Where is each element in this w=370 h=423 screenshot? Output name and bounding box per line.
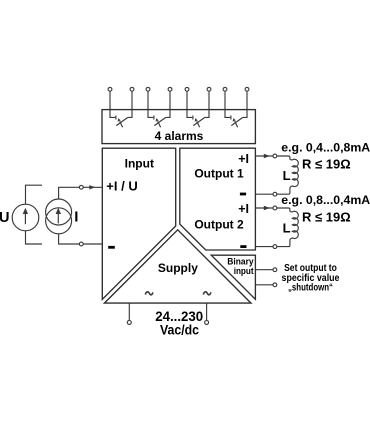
terminal 3 [146, 87, 150, 91]
output1 terminal + [273, 154, 277, 158]
terminal 6 [207, 87, 211, 91]
input terminal + [79, 185, 83, 189]
terminal 5 [185, 87, 189, 91]
wire U top stub [26, 185, 43, 204]
svg-text:+I: +I [238, 202, 249, 216]
terminal 7 [223, 87, 227, 91]
svg-text:Output 2: Output 2 [194, 217, 244, 231]
wire I top stub [59, 187, 80, 199]
label output1 minus [240, 193, 246, 196]
svg-text:Binary: Binary [227, 257, 253, 267]
label output2 minus [240, 245, 246, 248]
relay contact K2 [148, 91, 170, 127]
relay contact K3 [187, 91, 209, 127]
output panel [180, 148, 256, 250]
wire binary 2 [255, 284, 273, 286]
wire supply L [128, 303, 130, 320]
svg-text:+I: +I [238, 152, 249, 166]
supply terminal L [127, 320, 131, 324]
wire input + with arrow [83, 185, 102, 189]
wire input - [83, 243, 102, 245]
output2 terminal - [273, 245, 277, 249]
svg-text:Vac/dc: Vac/dc [160, 322, 199, 338]
ac symbol left [145, 292, 153, 295]
svg-text:L: L [283, 168, 291, 183]
svg-text:„shutdown“: „shutdown“ [288, 283, 333, 294]
wire output2 +I with arrow [255, 206, 273, 210]
inductor L1 [277, 156, 299, 194]
wire output1 - [255, 193, 273, 195]
svg-text:e.g. 0,8...0,4mA: e.g. 0,8...0,4mA [281, 193, 370, 207]
svg-text:L: L [283, 221, 291, 236]
wire output1 +I with arrow [255, 154, 273, 158]
wire U bottom stub [26, 231, 43, 244]
svg-text:U: U [0, 210, 9, 226]
svg-text:Supply: Supply [158, 261, 198, 275]
svg-text:4 alarms: 4 alarms [155, 129, 204, 143]
binary input panel [211, 255, 255, 299]
svg-text:+I / U: +I / U [106, 179, 137, 194]
label input minus [108, 246, 115, 249]
terminal 8 [245, 87, 249, 91]
svg-text:R ≤ 19Ω: R ≤ 19Ω [302, 210, 351, 225]
input panel [102, 148, 175, 299]
binary terminal 2 [273, 283, 277, 287]
svg-text:I: I [74, 208, 78, 225]
alarms box [102, 110, 255, 144]
svg-text:e.g. 0,4...0,8mA: e.g. 0,4...0,8mA [281, 141, 370, 155]
svg-text:R ≤ 19Ω: R ≤ 19Ω [302, 156, 351, 171]
relay contact K4 [225, 91, 247, 127]
wire I bottom stub [59, 234, 80, 244]
terminal 4 [168, 87, 172, 91]
ac symbol right [203, 292, 211, 295]
svg-text:input: input [234, 266, 254, 276]
svg-text:Output 1: Output 1 [194, 166, 244, 180]
output1 terminal - [273, 192, 277, 196]
wire output2 - [255, 246, 273, 248]
voltage source U [12, 204, 39, 231]
binary terminal 1 [273, 268, 277, 272]
relay contact K1 [110, 91, 132, 127]
wire binary 1 [255, 269, 273, 271]
supply panel [104, 230, 251, 303]
input terminal - [79, 242, 83, 246]
output2 terminal + [273, 206, 277, 210]
terminal 1 [108, 87, 112, 91]
supply terminal N [205, 320, 209, 324]
inductor L2 [277, 208, 299, 247]
wire supply N [206, 303, 208, 320]
current source I [46, 199, 72, 234]
terminal 2 [130, 87, 134, 91]
svg-text:Input: Input [125, 157, 154, 171]
